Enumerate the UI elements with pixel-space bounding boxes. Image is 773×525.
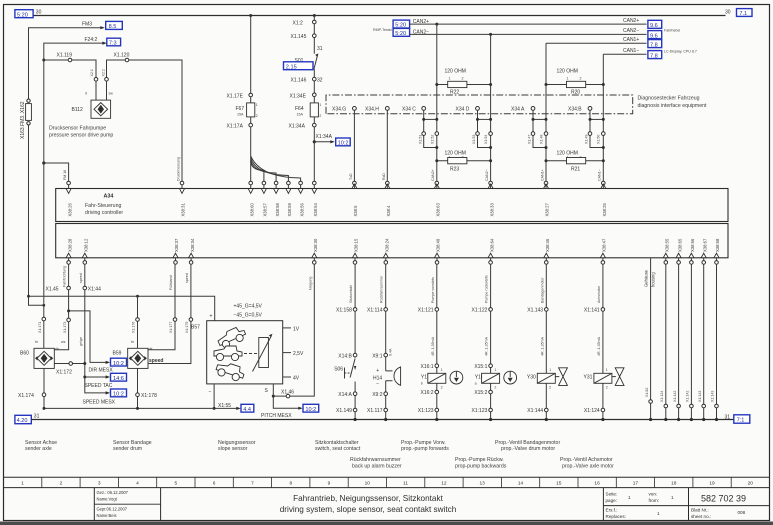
fuse F67 (247, 103, 255, 117)
wire supply to B59 (137, 296, 139, 348)
svg-text:X2:2: X2:2 (102, 69, 106, 76)
svg-text:Y30: Y30 (527, 375, 536, 381)
wire B59 ground X1:178 (137, 368, 139, 408)
svg-text:X1:143: X1:143 (698, 391, 702, 402)
svg-text:X38:25: X38:25 (602, 203, 607, 217)
connector X15:2 (474, 390, 492, 396)
sheet ref 7.1 right (737, 9, 753, 17)
connector X1:173 (67, 318, 71, 322)
pin X38:57 top (261, 181, 267, 216)
page bottom scan shadow (0, 522, 773, 525)
svg-text:9.6: 9.6 (650, 23, 658, 29)
svg-text:X38:5: X38:5 (353, 205, 358, 217)
svg-text:sheet no.:: sheet no.: (691, 514, 711, 519)
svg-text:+: + (376, 368, 379, 374)
svg-text:1: 1 (628, 495, 631, 500)
solenoid valve Y30 (527, 373, 555, 383)
svg-text:X38:65: X38:65 (677, 238, 682, 252)
svg-text:driving controller: driving controller (85, 210, 123, 216)
svg-text:X38:64: X38:64 (489, 238, 494, 252)
pin X38:5 top (352, 181, 358, 216)
svg-text:prop-pump backwards: prop-pump backwards (455, 463, 507, 469)
svg-text:X38:49: X38:49 (436, 238, 441, 252)
pin X38:12 bottom (82, 238, 88, 264)
svg-text:1: 1 (606, 368, 608, 372)
controller A34 box lower (56, 224, 728, 258)
svg-text:X38:37: X38:37 (174, 238, 179, 252)
svg-text:7:1: 7:1 (737, 418, 745, 424)
svg-text:X1:144: X1:144 (527, 408, 543, 414)
pump symbol at Y16 (504, 371, 517, 384)
svg-text:SPEED TAC: SPEED TAC (85, 383, 113, 389)
svg-text:Diagnosestecker Fahrzeug: Diagnosestecker Fahrzeug (638, 96, 700, 102)
svg-text:X9:2: X9:2 (372, 392, 383, 398)
svg-text:F24:2: F24:2 (85, 37, 98, 43)
sheet ref 7.8 b (648, 51, 662, 59)
wire to pin X38:26 (44, 163, 69, 181)
svg-text:X1:44: X1:44 (88, 287, 101, 293)
connector X2:2 (105, 78, 109, 82)
svg-text:X1:47: X1:47 (528, 135, 532, 144)
pin X34.A (531, 107, 535, 111)
svg-text:B59: B59 (113, 351, 122, 357)
svg-text:X38:46: X38:46 (545, 238, 550, 252)
svg-text:X1:141: X1:141 (584, 308, 600, 314)
svg-text:5:20: 5:20 (395, 31, 406, 37)
svg-text:4R..1,35mA: 4R..1,35mA (597, 336, 601, 356)
svg-text:2: 2 (606, 386, 608, 390)
svg-text:sender drum: sender drum (113, 446, 142, 452)
solenoid valve Y17 (421, 373, 446, 385)
svg-text:X1:123: X1:123 (418, 408, 434, 414)
svg-text:X34 A: X34 A (511, 107, 525, 113)
svg-text:5:20: 5:20 (17, 12, 28, 18)
wire B57 minus (213, 384, 215, 409)
svg-text:1V: 1V (293, 326, 300, 332)
svg-text:X1:142: X1:142 (686, 391, 690, 402)
svg-text:driving system, slope sensor,: driving system, slope sensor, seat conta… (280, 505, 457, 514)
svg-text:10:2: 10:2 (113, 392, 124, 398)
machine icon level (214, 346, 242, 361)
svg-text:X38:47: X38:47 (602, 238, 607, 252)
svg-text:10:2: 10:2 (305, 407, 316, 413)
pin X38:64 bottom (488, 238, 494, 264)
svg-text:9.6: 9.6 (650, 33, 658, 39)
pin X38:31 top (180, 181, 186, 216)
connector X1:44 (83, 286, 87, 290)
wire ground X1:142 (686, 264, 694, 419)
pin X38:68 bottom (714, 238, 720, 264)
svg-text:2: 2 (441, 386, 443, 390)
svg-text:14: 14 (518, 480, 524, 486)
svg-text:X1.146: X1.146 (291, 77, 307, 83)
wire B60 ground X1.174 (43, 368, 45, 408)
svg-text:5: 5 (174, 480, 177, 486)
svg-text:3: 3 (98, 480, 101, 486)
svg-text:7.8: 7.8 (650, 53, 658, 59)
svg-text:X1:114: X1:114 (367, 308, 383, 314)
svg-text:X1:55: X1:55 (218, 403, 231, 409)
wire S01 F64 branch (313, 14, 316, 17)
wire ground X1:142 (673, 264, 681, 419)
svg-text:X1.149: X1.149 (336, 408, 352, 414)
sheet ref 7:3 (107, 38, 121, 46)
wire X38:12 speed (85, 264, 107, 393)
pump symbol at Y17 (450, 371, 463, 384)
diagnosis connector box (326, 95, 633, 114)
pin X38:34 bottom (189, 238, 195, 264)
svg-text:sw: sw (109, 92, 114, 96)
connector X1:144 (527, 408, 548, 414)
svg-text:a: a (475, 382, 477, 386)
solenoid valve Y16 (475, 373, 500, 385)
wire supply to B60 (43, 60, 45, 348)
svg-text:X38:27: X38:27 (545, 203, 550, 217)
svg-text:X1:173: X1:173 (63, 322, 67, 333)
svg-text:S: S (265, 388, 269, 394)
connector pair X1:47 X1:48 (528, 110, 548, 149)
svg-text:X1.46: X1.46 (281, 389, 294, 395)
variable resistor (259, 338, 269, 368)
connector pair X1:49 X1:50 (585, 110, 605, 149)
svg-text:diagnosis interface equipment: diagnosis interface equipment (638, 103, 707, 109)
svg-text:008: 008 (738, 510, 746, 515)
connector X1:121 (418, 308, 439, 314)
svg-text:B57: B57 (191, 325, 200, 331)
wire F24:2 branch (44, 43, 104, 60)
pin X38:25 top (601, 181, 607, 216)
pin X34.G (353, 107, 357, 111)
svg-text:X38:26: X38:26 (67, 203, 72, 217)
svg-text:20: 20 (748, 480, 754, 486)
svg-text:16: 16 (594, 480, 600, 486)
svg-text:Füllstand: Füllstand (169, 275, 173, 290)
svg-text:10: 10 (365, 480, 371, 486)
svg-text:X163.FM3..X162: X163.FM3..X162 (20, 101, 26, 139)
svg-text:speed: speed (79, 273, 83, 283)
connector X1:34E (313, 93, 317, 97)
svg-text:Seite:: Seite: (606, 492, 618, 497)
wire RxD (386, 110, 388, 183)
svg-text:RMP-Testst.: RMP-Testst. (373, 28, 393, 32)
svg-text:Drucksensor Fahrpumpe: Drucksensor Fahrpumpe (49, 126, 106, 132)
svg-text:4.20: 4.20 (17, 418, 28, 424)
wire X1.119 supply line (44, 60, 96, 100)
fuse X163.FM3..X162 (27, 99, 30, 102)
svg-text:14:6: 14:6 (113, 376, 124, 382)
svg-text:Prop.-Ventil Bandagenmotor: Prop.-Ventil Bandagenmotor (495, 440, 560, 446)
svg-text:X1:176: X1:176 (132, 322, 136, 333)
svg-text:11: 11 (403, 480, 408, 486)
svg-text:2: 2 (319, 114, 321, 118)
wire Y30 column (545, 264, 547, 419)
svg-text:Fahrhebel: Fahrhebel (664, 29, 680, 33)
connector X14:A (338, 392, 357, 398)
connector X1.149 (336, 408, 357, 414)
svg-text:prop.-Valve drum motor: prop.-Valve drum motor (501, 446, 555, 452)
svg-text:X38:60: X38:60 (249, 203, 254, 217)
connector X2:1 (94, 78, 98, 82)
svg-text:4V: 4V (293, 376, 300, 382)
pressure sensor B112 (91, 100, 111, 118)
svg-text:X1:123: X1:123 (472, 408, 488, 414)
wire X38:28 to B60 dir (68, 264, 70, 311)
pin X38:26 top (66, 181, 72, 216)
svg-text:rt: rt (85, 92, 87, 96)
svg-text:CAN1+: CAN1+ (540, 169, 544, 181)
wire Y31 column (602, 264, 604, 419)
svg-text:X38:31: X38:31 (181, 203, 186, 217)
svg-text:Neigungssensor: Neigungssensor (218, 440, 256, 446)
svg-text:18: 18 (671, 480, 677, 486)
sheet ref 4.4 (241, 404, 254, 412)
connector pair X1:53 X1:54 (472, 110, 492, 149)
column ruler band (4, 477, 770, 487)
svg-text:1: 1 (319, 103, 321, 107)
svg-text:back up alarm buzzer: back up alarm buzzer (352, 463, 402, 469)
svg-text:S06: S06 (334, 367, 343, 373)
connector X1:176 (136, 318, 140, 322)
svg-text:31: 31 (725, 414, 731, 420)
sheet ref 4.20 (15, 415, 31, 423)
svg-text:32: 32 (317, 77, 323, 83)
svg-text:13: 13 (480, 480, 486, 486)
connector X1:34A (313, 123, 317, 127)
svg-text:von:: von: (649, 492, 658, 497)
svg-text:120 OHM: 120 OHM (557, 69, 578, 75)
svg-text:F64: F64 (295, 106, 304, 112)
svg-text:Fahrtrichtung: Fahrtrichtung (63, 266, 67, 287)
svg-text:Bandagenmotor: Bandagenmotor (540, 277, 544, 303)
controller A34 box upper (56, 189, 728, 222)
svg-text:A34: A34 (104, 194, 114, 200)
pin X38:30 bottom (312, 238, 318, 264)
SENSORS (18, 60, 319, 419)
wire stubs top pins (69, 185, 604, 189)
svg-text:FM3: FM3 (82, 21, 92, 27)
svg-text:from:: from: (649, 498, 659, 503)
svg-text:CAN2−: CAN2− (485, 169, 489, 181)
svg-text:X38:24: X38:24 (385, 238, 390, 252)
CAN (326, 18, 707, 183)
motor symbol at Y30 (555, 368, 567, 386)
ground rail 31 (32, 419, 734, 421)
svg-text:7:3: 7:3 (109, 41, 117, 47)
sheet ref 10:2 (336, 138, 351, 146)
svg-text:0,4A: 0,4A (389, 348, 393, 356)
svg-text:X38:33: X38:33 (489, 203, 494, 217)
wire ground X1:140 (660, 264, 668, 419)
svg-text:X38:28: X38:28 (67, 238, 72, 252)
svg-text:X15:1: X15:1 (474, 364, 487, 370)
svg-text:+: + (210, 314, 213, 320)
svg-text:X38:67: X38:67 (702, 238, 707, 252)
wire X1.120 signal line (107, 60, 183, 183)
solenoid valve Y31 (583, 373, 611, 383)
svg-text:X2:1: X2:1 (90, 69, 94, 76)
sensor B60 (34, 348, 54, 368)
svg-text:X1:172: X1:172 (56, 370, 72, 376)
connector X16:1 (421, 364, 439, 370)
machine icon tilted down (215, 360, 246, 383)
svg-text:Prop.-Ventil Achsmotor: Prop.-Ventil Achsmotor (560, 457, 613, 463)
svg-text:X38:12: X38:12 (84, 238, 89, 252)
ACTUATORS (15, 258, 750, 424)
svg-text:R21: R21 (571, 167, 580, 173)
connector X1.46 (286, 394, 290, 398)
sheet ref 9.6 b (648, 31, 662, 39)
pin X38:59 top (286, 181, 292, 216)
sheet ref 5:20 CAN2+ (393, 20, 410, 28)
sheet ref 5:20 CAN2- (393, 28, 410, 36)
svg-text:Sensor Achse: Sensor Achse (25, 440, 57, 446)
pin X38:28 bottom (66, 238, 72, 264)
svg-text:Gepr.06.12.2007: Gepr.06.12.2007 (97, 506, 128, 511)
svg-text:X1:48: X1:48 (540, 135, 544, 144)
pin X38:4 top (385, 181, 391, 216)
svg-text:X1:178: X1:178 (141, 393, 157, 399)
svg-text:15A: 15A (297, 112, 304, 116)
svg-text:X1:143: X1:143 (711, 391, 715, 402)
pin X38:15 bottom (353, 238, 359, 264)
svg-text:Neigung: Neigung (309, 277, 313, 290)
wire buzzer column (385, 264, 387, 419)
svg-text:X1:124: X1:124 (584, 408, 600, 414)
svg-text:4R..1,35mA: 4R..1,35mA (485, 336, 489, 356)
svg-text:LC-Display, CPU 8.7: LC-Display, CPU 8.7 (664, 50, 697, 54)
svg-text:X1:52: X1:52 (430, 135, 434, 144)
svg-text:Prop.-Pumpe Rückw.: Prop.-Pumpe Rückw. (455, 457, 504, 463)
svg-text:br: br (131, 340, 135, 344)
svg-text:120 OHM: 120 OHM (445, 69, 466, 75)
wire F67 branch (249, 14, 252, 17)
svg-text:Druckmessung: Druckmessung (176, 157, 180, 181)
svg-text:X14:B: X14:B (338, 353, 352, 359)
fuse F64 (310, 103, 318, 117)
svg-text:7.1: 7.1 (739, 11, 747, 17)
connector X1.17E (249, 93, 253, 97)
wire B59 speed to X38:34 (148, 264, 191, 363)
svg-text:X15:2: X15:2 (474, 390, 487, 396)
connector X14:B (338, 353, 357, 359)
svg-text:CAN2+: CAN2+ (623, 18, 639, 24)
svg-text:+45_G=4,5V: +45_G=4,5V (234, 304, 263, 310)
pin X38:24 bottom (383, 238, 389, 264)
svg-text:X1.143: X1.143 (527, 308, 543, 314)
svg-text:X1.117: X1.117 (367, 408, 383, 414)
svg-text:31: 31 (34, 414, 40, 420)
svg-text:TxD: TxD (349, 173, 353, 180)
svg-text:R23: R23 (450, 167, 459, 173)
svg-text:Sitzkontaktschalter: Sitzkontaktschalter (315, 440, 359, 446)
sheet ref 10:2 PITCH (303, 404, 319, 412)
svg-text:30: 30 (36, 10, 42, 16)
svg-text:−45_G=0,5V: −45_G=0,5V (234, 313, 263, 319)
svg-text:8.5: 8.5 (109, 24, 117, 30)
switch S06 seat contact (334, 359, 356, 379)
svg-text:9: 9 (328, 480, 331, 486)
machine icon tilted up (216, 325, 248, 350)
svg-text:4.4: 4.4 (243, 407, 251, 413)
svg-text:X38:4: X38:4 (386, 205, 391, 217)
svg-text:speed: speed (185, 273, 189, 283)
wire PITCH MESX (273, 396, 299, 408)
svg-text:CAN1−: CAN1− (598, 169, 602, 181)
pin X38:37 bottom (173, 238, 179, 264)
wire DIR bypass (69, 311, 107, 363)
buzzer H14 (373, 367, 401, 388)
svg-text:15A: 15A (237, 112, 244, 116)
wire CAN2+ drop (435, 23, 438, 26)
svg-text:B112: B112 (72, 107, 84, 113)
svg-text:X1:49: X1:49 (585, 135, 589, 144)
svg-text:DIR MESX: DIR MESX (89, 368, 114, 374)
page box (606, 492, 746, 520)
svg-text:2: 2 (462, 77, 464, 81)
CAPTIONS (25, 440, 614, 470)
pin X34.D (476, 107, 480, 111)
svg-text:X1.174: X1.174 (18, 393, 34, 399)
svg-text:br: br (35, 340, 39, 344)
connector X1.146 (313, 77, 317, 81)
sheet ref 8.5 (106, 21, 123, 29)
svg-text:2: 2 (60, 480, 63, 486)
svg-text:1: 1 (567, 77, 569, 81)
svg-text:Pumpe rückwärts: Pumpe rückwärts (485, 275, 489, 303)
svg-text:10:2: 10:2 (113, 361, 124, 367)
pin X38:58 top (274, 181, 280, 216)
wire B59 dir to X38:37 (148, 264, 175, 350)
svg-text:X38:68: X38:68 (715, 238, 720, 252)
svg-text:gn/ge: gn/ge (79, 337, 83, 346)
wire FM3 feed (29, 28, 102, 101)
svg-text:X1:171: X1:171 (38, 322, 42, 333)
svg-text:X38:15: X38:15 (354, 238, 359, 252)
svg-text:2: 2 (549, 386, 551, 390)
output 1V (283, 327, 291, 329)
connector X1.119 (68, 58, 72, 62)
wire fuse down to sensor feed (29, 125, 215, 321)
svg-text:Prop.-Pumpe Vorw.: Prop.-Pumpe Vorw. (401, 440, 446, 446)
wire CAN1+ drop (545, 43, 547, 183)
svg-text:X1:2: X1:2 (293, 20, 304, 26)
connector X1:171 (42, 317, 46, 321)
connector X16:2 (421, 390, 439, 396)
svg-text:X38:59: X38:59 (287, 203, 292, 217)
pin X38:33 top (488, 181, 494, 216)
svg-text:pressure sensor drive pump: pressure sensor drive pump (49, 133, 113, 139)
svg-text:2: 2 (580, 77, 582, 81)
svg-text:1: 1 (441, 368, 443, 372)
svg-text:12: 12 (441, 480, 447, 486)
svg-text:4R..1,35mA: 4R..1,35mA (540, 336, 544, 356)
svg-text:X34:B: X34:B (568, 107, 582, 113)
svg-text:X16:2: X16:2 (421, 390, 434, 396)
wire SPEED TAC tap (83, 376, 86, 379)
svg-text:X38:55: X38:55 (665, 238, 670, 252)
svg-text:2.15: 2.15 (286, 64, 297, 70)
svg-text:B60: B60 (20, 351, 29, 357)
svg-text:Sitzkontakt: Sitzkontakt (349, 285, 353, 303)
svg-text:19: 19 (709, 480, 715, 486)
svg-text:CAN1−: CAN1− (623, 48, 639, 54)
connector X1.120 (125, 58, 129, 62)
connector X1:122 (472, 308, 493, 314)
wire seat contact column (354, 264, 356, 419)
svg-text:4: 4 (136, 480, 139, 486)
svg-text:Rückfahrwarnsummer: Rückfahrwarnsummer (350, 457, 401, 463)
pin X38:60 top (248, 181, 254, 216)
